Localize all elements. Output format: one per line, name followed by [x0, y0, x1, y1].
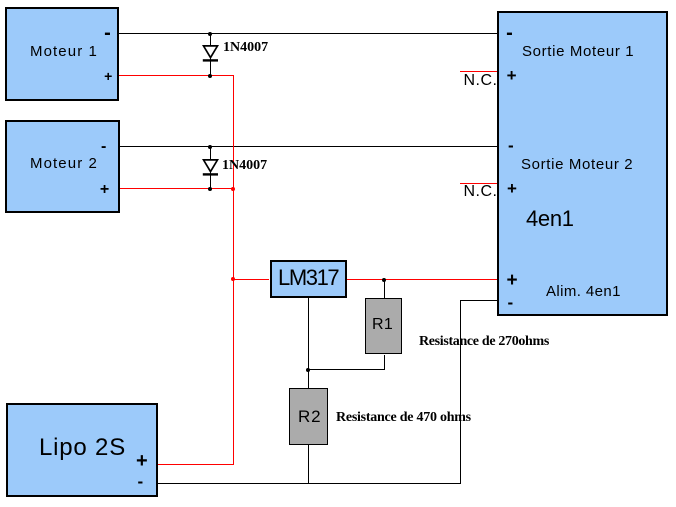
wire R1 top: [384, 280, 385, 298]
ESC U2 "4en1": [497, 11, 668, 316]
wire ground right vertical: [460, 300, 461, 483]
wire R1 to node ADJ: [308, 369, 385, 370]
label Moteur 1: [30, 44, 98, 59]
BT1 pin +: [136, 451, 148, 471]
resistor R2: [289, 388, 328, 445]
resistor R1: [365, 298, 402, 354]
label R1 value: [419, 335, 549, 349]
wire BT1- horizontal: [158, 483, 461, 484]
U2 pin - Sortie Moteur 1: [506, 23, 513, 43]
junction D2 top: [208, 145, 212, 149]
U2 pin + Sortie Moteur 1: [507, 66, 517, 86]
label N.C. 1: [464, 73, 498, 89]
label LM317: [278, 267, 338, 289]
junction D1 top: [208, 32, 212, 36]
wire N.C. stub 1 red: [460, 71, 497, 72]
U2 pin - Sortie Moteur 2: [508, 136, 514, 156]
junction red bus M2+: [231, 187, 235, 191]
label Lipo 2S: [39, 436, 126, 460]
label D2 1N4007: [222, 159, 267, 173]
wire LM317 ADJ down: [308, 298, 309, 388]
junction D1 bottom: [208, 74, 212, 78]
wire LM317 output red: [347, 279, 497, 280]
wire M1- to U2: [119, 33, 497, 34]
junction R1 top node: [382, 278, 386, 282]
label D1 1N4007: [223, 41, 268, 55]
label N.C. 2: [464, 184, 498, 200]
wire red bus vertical: [233, 75, 234, 464]
junction ADJ node: [306, 368, 310, 372]
diode D2 1N4007: [201, 158, 221, 177]
label Sortie Moteur 1: [522, 44, 634, 59]
label R2: [298, 408, 322, 425]
U2 pin + Alim: [507, 271, 518, 291]
U2 pin + Sortie Moteur 2: [507, 179, 517, 199]
wire U2 Alim- stub: [460, 300, 497, 301]
label R1: [372, 317, 393, 333]
label Alim. 4en1: [546, 284, 621, 299]
label Moteur 2: [30, 156, 98, 171]
wire LM317 input red: [233, 279, 269, 280]
M1 pin -: [104, 23, 111, 43]
wire N.C. stub 2 red: [460, 183, 497, 184]
wire BT1+ red: [158, 464, 234, 465]
wire M1+ red: [119, 75, 233, 76]
BT1 pin -: [137, 472, 143, 492]
diode D1 1N4007: [201, 44, 221, 63]
M2 pin +: [100, 180, 109, 200]
regulator U1 LM317: [270, 260, 347, 298]
junction D2 bottom: [208, 187, 212, 191]
label Sortie Moteur 2: [521, 157, 633, 172]
wire M2+ red: [120, 188, 233, 189]
motor M1 "Moteur 1": [5, 7, 119, 101]
wire diode D2 vertical: [210, 146, 211, 188]
wire diode D1 vertical: [210, 33, 211, 75]
junction red bus LM317: [231, 277, 235, 281]
motor M2 "Moteur 2": [5, 120, 120, 213]
wire M2- to U2: [120, 146, 497, 147]
M1 pin +: [104, 66, 112, 86]
M2 pin -: [101, 137, 106, 157]
U2 pin - Alim: [507, 293, 513, 313]
wire R2 bottom: [308, 445, 309, 483]
wire R1 bottom: [384, 355, 385, 370]
battery BT1 "Lipo 2S": [6, 403, 158, 497]
label R2 value: [336, 411, 471, 425]
label 4en1: [526, 208, 574, 230]
